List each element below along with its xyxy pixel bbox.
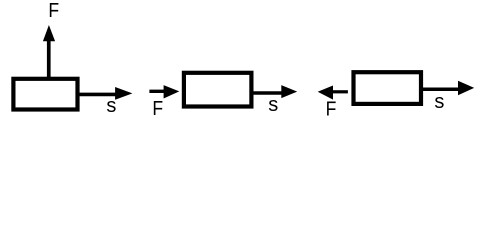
svg-text:s: s [106,95,116,117]
svg-text:F: F [48,0,59,21]
svg-text:s: s [268,94,278,116]
svg-text:F: F [326,97,337,119]
svg-text:s: s [434,91,444,113]
svg-text:F: F [152,97,163,119]
